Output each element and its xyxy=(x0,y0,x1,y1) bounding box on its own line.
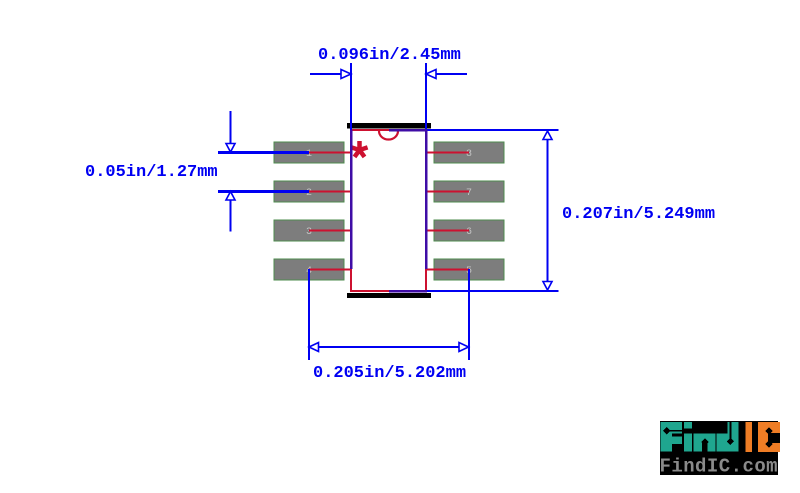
body outline xyxy=(351,130,426,291)
svg-text:8: 8 xyxy=(466,149,472,160)
pad 3 xyxy=(274,220,344,241)
overlap purple: body right edge under blue extension xyxy=(425,130,428,269)
wire pad2 blue lead xyxy=(218,190,309,193)
overlap purple: body top edge under blue extension xyxy=(389,129,427,132)
pad 1 xyxy=(274,142,344,163)
svg-text:FindIC.com: FindIC.com xyxy=(660,456,779,478)
pad 4 xyxy=(274,259,344,280)
wire pad5 blue lead (bottom dim extension) xyxy=(468,269,470,360)
svg-text:2: 2 xyxy=(306,188,312,199)
svg-text:7: 7 xyxy=(466,188,472,199)
svg-text:0.205in/5.202mm: 0.205in/5.202mm xyxy=(313,364,466,383)
svg-text:0.096in/2.45mm: 0.096in/2.45mm xyxy=(318,46,461,65)
top dim arrowhead right (points left) xyxy=(426,70,436,79)
wire pad5 to body (red) xyxy=(425,269,469,271)
pin-1 notch semicircle xyxy=(379,131,398,140)
top dim arrow line left xyxy=(310,73,350,75)
right dim top extension line xyxy=(389,129,559,131)
left dim upper arrowhead (points down) xyxy=(226,144,235,153)
svg-text:6: 6 xyxy=(466,227,472,238)
wire pad1 to body (red) xyxy=(309,152,352,154)
FindIC logo black trace in C xyxy=(765,427,772,447)
right dim vertical line xyxy=(547,131,549,290)
right dim arrowhead bottom (points down) xyxy=(543,282,552,291)
top dim arrowhead left (points right) xyxy=(341,70,351,79)
overlap purple: body left edge under blue extension xyxy=(350,130,353,269)
pad 6 xyxy=(434,220,504,241)
FindIC logo word Find (teal) xyxy=(661,422,739,452)
svg-text:0.05in/1.27mm: 0.05in/1.27mm xyxy=(85,163,218,182)
pad 5 xyxy=(434,259,504,280)
wire pad7 to body (red) xyxy=(425,191,469,193)
wire pad3 to body (red) xyxy=(309,230,352,232)
left dim lower extension line xyxy=(230,192,232,232)
wire pad4 blue lead (bottom dim extension) xyxy=(308,269,310,360)
FindIC logo black notch in C xyxy=(768,433,780,443)
pin 1 marker asterisk xyxy=(351,141,367,157)
bottom dim arrowhead right (points right) xyxy=(459,343,469,352)
pad 2 xyxy=(274,181,344,202)
bottom dim line xyxy=(309,346,469,348)
top dim extension line right xyxy=(425,63,427,269)
wire pad4 to body (red) xyxy=(309,269,352,271)
left dim lower arrowhead (points up) xyxy=(226,192,235,201)
right dim arrowhead top (points up) xyxy=(543,131,552,140)
top dim extension line left xyxy=(350,63,352,269)
left dim upper extension line xyxy=(230,111,232,152)
bottom dim arrowhead left (points left) xyxy=(309,343,319,352)
svg-text:1: 1 xyxy=(306,149,312,160)
svg-text:0.207in/5.249mm: 0.207in/5.249mm xyxy=(562,205,715,224)
right dim bottom extension line xyxy=(389,290,559,292)
wire pad2 to body (red) xyxy=(309,191,352,193)
wire pad6 to body (red) xyxy=(425,230,469,232)
bottom black bar of body xyxy=(347,293,431,298)
FindIC logo black circuit traces on Find xyxy=(663,422,734,452)
FindIC logo word IC (orange) xyxy=(746,422,781,452)
overlap purple: body bottom edge under blue extension xyxy=(389,290,427,293)
top dim arrow line right xyxy=(427,73,467,75)
pad 7 xyxy=(434,181,504,202)
pad 8 xyxy=(434,142,504,163)
wire pad1 blue lead xyxy=(218,151,309,154)
FindIC logo background xyxy=(660,421,778,475)
top black bar of body xyxy=(347,123,431,129)
wire pad8 to body (red) xyxy=(425,152,469,154)
svg-text:3: 3 xyxy=(306,227,312,238)
